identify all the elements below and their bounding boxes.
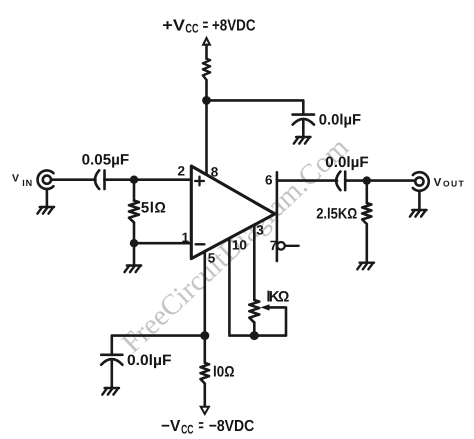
wire pin 6 to output coupling cap xyxy=(277,179,337,182)
label +VCC = +8VDC xyxy=(162,17,256,35)
value label 0.01µF (V+ bypass) xyxy=(319,111,361,128)
svg-text:0.0lµF: 0.0lµF xyxy=(325,154,368,171)
wire output bus (pins 6/7) xyxy=(276,172,279,261)
wire +VCC arrow to supply resistor xyxy=(205,45,208,59)
node E (V− junction) xyxy=(200,331,209,340)
ground (51Ω / pin1) xyxy=(125,266,142,273)
svg-text:CC: CC xyxy=(181,422,193,436)
svg-text:=: = xyxy=(203,17,209,34)
wire node A to bypass capacitor C1 xyxy=(207,100,304,114)
ground (V+ bypass cap) xyxy=(294,137,311,144)
ground (VOUT jack) xyxy=(410,210,427,217)
pin number 7 xyxy=(270,238,278,253)
op-amp + input sign xyxy=(195,177,204,186)
svg-text:V: V xyxy=(434,177,442,189)
node B (input junction) xyxy=(130,176,138,184)
wire pin 10 to node D xyxy=(229,238,254,336)
svg-text:lKΩ: lKΩ xyxy=(266,289,289,306)
svg-text:−V: −V xyxy=(161,418,181,435)
op-amp U1 xyxy=(191,166,275,259)
svg-text:=: = xyxy=(199,418,204,435)
potentiometer 1KΩ xyxy=(249,300,286,336)
label VOUT xyxy=(434,177,466,189)
svg-text:2: 2 xyxy=(178,164,186,179)
svg-text:l0Ω: l0Ω xyxy=(213,364,235,381)
wire output cap to VOUT jack xyxy=(345,179,414,182)
+VCC terminal arrow xyxy=(203,38,210,45)
−VCC terminal arrow xyxy=(201,407,209,414)
value label 2.15KΩ xyxy=(316,206,357,223)
svg-text:3: 3 xyxy=(256,223,264,238)
pin number 8 xyxy=(211,165,219,180)
pin number 3 xyxy=(256,223,264,238)
wire pin 3 to potentiometer xyxy=(253,225,256,300)
connector VOUT jack xyxy=(413,172,429,191)
resistor 51Ω xyxy=(129,180,139,244)
pin number 6 xyxy=(265,173,273,188)
ground (2.15KΩ) xyxy=(357,263,374,270)
svg-text:5: 5 xyxy=(208,251,216,266)
pin number 10 xyxy=(232,237,247,252)
resistor 10Ω xyxy=(201,336,210,407)
wire node E to bypass capacitor (bottom left) xyxy=(112,336,205,355)
svg-text:8: 8 xyxy=(211,165,219,180)
svg-text:+8VDC: +8VDC xyxy=(212,17,256,34)
wire VIN jack to coupling capacitor xyxy=(52,178,96,181)
svg-text:1: 1 xyxy=(182,230,190,245)
wire VIN jack to ground xyxy=(46,189,49,207)
node A (V+ junction) xyxy=(202,96,211,105)
capacitor 0.05µF (input coupling) xyxy=(95,170,105,189)
svg-text:−8VDC: −8VDC xyxy=(209,418,255,435)
node D (pot bottom junction) xyxy=(250,331,259,340)
svg-text:OUT: OUT xyxy=(443,178,465,188)
value label 1KΩ xyxy=(266,289,289,306)
wire node C to op-amp pin 1 xyxy=(134,242,191,245)
ground (V− bypass cap) xyxy=(102,388,119,395)
wire node C to ground xyxy=(133,243,136,265)
value label 10Ω xyxy=(213,364,235,381)
svg-text:5lΩ: 5lΩ xyxy=(141,199,167,216)
pin number 1 xyxy=(182,230,190,245)
capacitor 0.01µF (V− bypass) xyxy=(101,355,122,388)
pin 7 terminal circle xyxy=(277,242,299,250)
connector VIN jack xyxy=(38,170,54,189)
svg-text:V: V xyxy=(12,172,19,184)
node C (pin1 junction) xyxy=(130,239,138,247)
svg-text:6: 6 xyxy=(265,173,273,188)
watermark FreeCircuitDiagram.Com xyxy=(116,131,355,359)
svg-text:CC: CC xyxy=(185,21,198,35)
value label 0.01µF (output) xyxy=(325,154,368,171)
op-amp − input sign xyxy=(196,243,205,245)
wire supply resistor to node A and op-amp pin 8 xyxy=(205,80,208,175)
capacitor 0.01µF (V+ bypass) xyxy=(293,115,314,137)
wire VOUT jack to ground xyxy=(418,191,421,210)
label VIN xyxy=(12,172,33,188)
label −VCC = −8VDC xyxy=(161,418,255,437)
pin number 5 xyxy=(208,251,216,266)
value label 51Ω xyxy=(141,199,167,216)
value label 0.05µF xyxy=(82,151,130,168)
svg-text:0.05µF: 0.05µF xyxy=(82,151,130,168)
wire pin 5 to node E xyxy=(204,251,207,335)
ground (VIN jack) xyxy=(37,207,54,214)
resistor (supply choke, unlabeled) xyxy=(203,59,210,80)
pin number 2 xyxy=(178,164,186,179)
svg-text:2.l5KΩ: 2.l5KΩ xyxy=(316,206,357,223)
node F (output junction) xyxy=(363,176,371,184)
resistor 2.15KΩ xyxy=(362,181,371,263)
value label 0.01µF (V− bypass) xyxy=(127,352,172,369)
capacitor 0.01µF (output coupling) xyxy=(336,172,345,191)
svg-text:IN: IN xyxy=(22,178,33,188)
svg-text:0.0lµF: 0.0lµF xyxy=(319,111,361,128)
svg-text:0.0lµF: 0.0lµF xyxy=(127,352,172,369)
wire coupling cap to op-amp pin 2 xyxy=(105,178,192,181)
svg-text:+V: +V xyxy=(162,17,185,34)
svg-text:10: 10 xyxy=(232,237,247,252)
